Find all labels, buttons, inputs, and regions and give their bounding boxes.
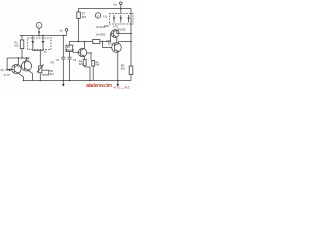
svg-text:3k9: 3k9 (79, 62, 84, 66)
svg-text:BD132: BD132 (66, 48, 74, 52)
svg-text:C2: C2 (56, 58, 60, 62)
svg-text:Vo: Vo (60, 29, 64, 33)
svg-text:1N 4002: 1N 4002 (96, 33, 106, 37)
svg-text:LN: LN (104, 15, 107, 19)
svg-text:VT2: VT2 (25, 58, 30, 62)
svg-text:≈0.7V: ≈0.7V (3, 73, 10, 77)
svg-text:Vo: Vo (113, 2, 117, 6)
svg-text:6k2: 6k2 (121, 66, 126, 70)
svg-text:3W: 3W (95, 63, 99, 67)
svg-text:aladenw.cim: aladenw.cim (86, 83, 113, 89)
svg-text:3k1: 3k1 (50, 72, 55, 76)
svg-text:51k: 51k (15, 44, 20, 48)
svg-text:5k6: 5k6 (82, 15, 87, 19)
svg-text:•|¼︵AΔ: •|¼︵AΔ (114, 85, 131, 89)
svg-text:R2: R2 (51, 61, 55, 65)
svg-text:C3: C3 (73, 58, 77, 62)
svg-text:Vin: Vin (0, 68, 4, 72)
svg-text:1N 4148: 1N 4148 (96, 25, 106, 29)
svg-text:BD239: BD239 (118, 28, 126, 32)
